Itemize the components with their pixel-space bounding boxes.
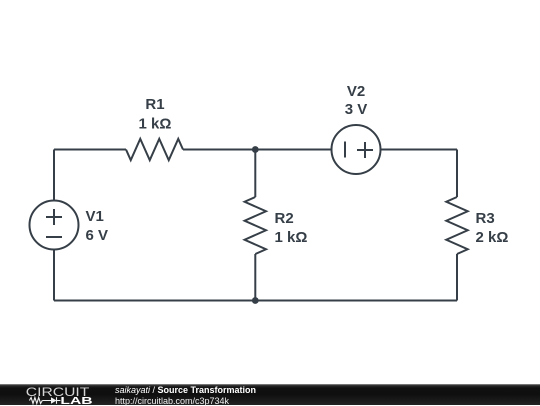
- svg-text:1 kΩ: 1 kΩ: [275, 229, 308, 246]
- resistor R2: [245, 197, 266, 254]
- wire top-left: corner to R1: [54, 149, 126, 151]
- V2 plus sign: [357, 142, 373, 158]
- V2 minus bar: [344, 142, 346, 158]
- V1 plus sign: [46, 209, 62, 225]
- resistor R3: [446, 197, 467, 254]
- logo wire: [42, 400, 60, 402]
- svg-text:R3: R3: [476, 210, 495, 227]
- footer url line: [115, 396, 229, 406]
- voltage source V1: [30, 201, 79, 250]
- resistor R1: [126, 139, 183, 160]
- footer bar: [0, 384, 540, 405]
- svg-text:R2: R2: [275, 210, 294, 227]
- wire middle upper: [254, 150, 256, 198]
- logo diode bar: [56, 397, 58, 404]
- wire middle lower: [254, 254, 256, 301]
- circuitlab logo: [25, 384, 135, 405]
- voltage source V2: [332, 125, 381, 174]
- svg-text:LAB: LAB: [60, 396, 92, 405]
- wire left side lower: [53, 250, 55, 301]
- wire bottom: [54, 300, 457, 302]
- node junction top: [252, 146, 259, 153]
- wire right side lower: [456, 254, 458, 301]
- svg-text:R1: R1: [145, 96, 164, 113]
- wire R1 to V2: [183, 149, 332, 151]
- footer title line: [115, 385, 256, 395]
- svg-text:V2: V2: [347, 83, 365, 100]
- V1 minus bar: [46, 236, 62, 238]
- logo diode triangle: [51, 397, 57, 404]
- svg-text:6 V: 6 V: [86, 227, 109, 244]
- node junction bottom: [252, 297, 259, 304]
- wire right side upper: [456, 150, 458, 198]
- logo resistor: [29, 398, 42, 404]
- svg-text:V1: V1: [86, 208, 104, 225]
- svg-text:3 V: 3 V: [345, 101, 368, 118]
- wire left side upper: [53, 150, 55, 201]
- svg-text:2 kΩ: 2 kΩ: [476, 229, 509, 246]
- wire V2 to top-right corner: [381, 149, 458, 151]
- svg-text:1 kΩ: 1 kΩ: [139, 116, 172, 133]
